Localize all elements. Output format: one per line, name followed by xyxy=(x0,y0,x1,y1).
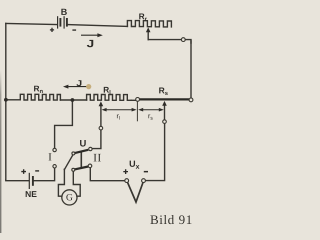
dimension arrow r_s xyxy=(138,108,164,112)
label + NE xyxy=(21,169,26,174)
wire G left diagonal xyxy=(64,155,73,170)
label NE xyxy=(26,191,37,197)
wire Ux right xyxy=(145,123,164,180)
page edge shadow xyxy=(0,70,1,233)
source Ux V-shape xyxy=(128,182,144,202)
paper background xyxy=(0,0,200,233)
wire top left xyxy=(6,23,57,24)
label - Ux xyxy=(144,171,148,173)
label + battery xyxy=(50,28,54,32)
wire NE bottom xyxy=(6,179,29,182)
wire Rl to terminal xyxy=(131,99,136,101)
wire G right lead xyxy=(73,171,80,196)
current arrow J middle xyxy=(63,85,90,89)
node contact II lower xyxy=(88,164,92,168)
wire Ux branch left xyxy=(90,168,125,181)
junction dot left xyxy=(4,98,8,102)
label J top xyxy=(87,40,93,47)
wire junction branch down to I xyxy=(55,100,73,148)
switch U lower blade xyxy=(72,167,88,172)
slider arrow Rs xyxy=(162,101,167,106)
junction dot middle xyxy=(71,98,75,102)
node Ux right terminal xyxy=(142,179,146,183)
label Ux xyxy=(130,161,140,169)
wire middle center xyxy=(60,99,86,101)
wire middle left xyxy=(6,99,20,101)
node contact I upper xyxy=(53,148,56,151)
node terminal on slider wire xyxy=(181,38,185,42)
label - battery xyxy=(72,29,76,30)
label Rl xyxy=(104,87,111,94)
resistor Rs slide wire (thick) xyxy=(140,98,189,100)
galvanometer G xyxy=(62,190,77,205)
wire II branch lower xyxy=(93,130,101,149)
paper stain dot xyxy=(86,84,91,89)
slider arrow Rr xyxy=(146,27,151,32)
resistor Rn comb xyxy=(20,94,60,100)
resistor Rr comb xyxy=(127,21,171,27)
node contact II upper xyxy=(89,147,92,150)
switch link xyxy=(80,152,82,167)
label U switch xyxy=(80,140,86,147)
node Ux left terminal xyxy=(125,179,129,183)
wire right vertical xyxy=(190,41,192,98)
label B xyxy=(61,9,66,15)
dimension tick xyxy=(136,102,138,122)
wire left edge xyxy=(5,23,7,180)
wire slider to terminal xyxy=(148,39,181,41)
label + Ux xyxy=(123,169,128,174)
label Rs xyxy=(159,88,168,96)
node contact I lower xyxy=(53,165,56,168)
wire terminal to corner xyxy=(185,40,191,43)
slider arrow Rl xyxy=(99,101,104,106)
wire II branch stem xyxy=(100,105,102,127)
battery NE plates xyxy=(29,173,33,189)
label r_s xyxy=(148,114,152,119)
wire top right xyxy=(68,25,128,27)
label I xyxy=(49,153,52,160)
current arrow J top xyxy=(81,33,103,37)
label - NE xyxy=(35,170,39,171)
wire Rs slider stem xyxy=(164,105,166,120)
dimension arrow r_l xyxy=(102,108,137,112)
node Rl right terminal xyxy=(136,98,140,102)
label r_l xyxy=(117,114,120,119)
label Rr xyxy=(139,13,147,20)
node right corner xyxy=(189,98,193,102)
caption Bild 91 xyxy=(150,215,191,224)
wire G left lead xyxy=(58,169,64,196)
wire Rr slider stem xyxy=(147,32,149,40)
battery B plates xyxy=(58,16,67,28)
resistor Rl comb xyxy=(87,95,132,101)
label II xyxy=(94,154,101,162)
label G text xyxy=(66,194,72,200)
node II stem xyxy=(99,126,103,130)
label J middle xyxy=(76,80,81,86)
wire NE to contact I lower xyxy=(34,168,55,181)
label Rn xyxy=(34,86,43,93)
switch U upper blade xyxy=(72,150,88,155)
node Rs slider stem xyxy=(163,120,167,124)
